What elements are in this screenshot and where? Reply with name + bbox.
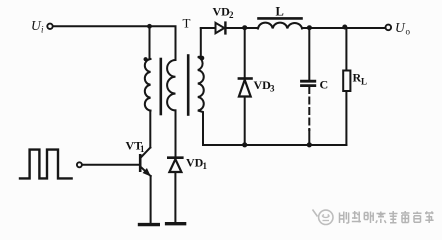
svg-text:1: 1 (140, 144, 145, 154)
svg-text:i: i (41, 25, 44, 35)
svg-text:T: T (183, 16, 191, 31)
svg-text:L: L (361, 77, 367, 87)
svg-text:3: 3 (270, 84, 275, 94)
svg-text:VD: VD (254, 78, 272, 92)
svg-text:VD: VD (213, 5, 231, 19)
svg-text:2: 2 (229, 10, 234, 20)
svg-text:L: L (276, 5, 284, 19)
svg-text:o: o (406, 27, 411, 37)
svg-text:C: C (320, 78, 329, 92)
svg-text:1: 1 (203, 161, 208, 171)
svg-text:U: U (395, 20, 406, 35)
svg-text:VD: VD (186, 156, 204, 170)
